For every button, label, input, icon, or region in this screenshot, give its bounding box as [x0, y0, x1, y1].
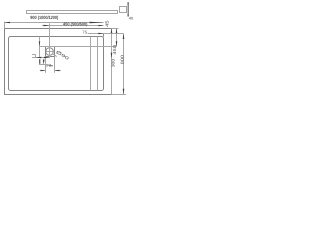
bottom edge ext right [112, 94, 127, 96]
sq width dim right [55, 70, 61, 72]
drain leader [53, 54, 57, 57]
dim B right arrow [99, 25, 104, 26]
svg-text:800: 800 [119, 54, 124, 64]
V1 down arrow [111, 53, 113, 59]
svg-text:450 (500/600): 450 (500/600) [63, 21, 88, 26]
dark vbar (digit 1 mark) [39, 59, 40, 64]
faint line y64.5 [39, 64, 46, 66]
svg-text:900 (1000/1200): 900 (1000/1200) [30, 15, 58, 20]
ext line y46.5 [40, 46, 117, 48]
dim B line [42, 25, 104, 27]
V2 down arrow [116, 41, 118, 46]
V3 dim line [123, 34, 125, 95]
small dim left arrow [36, 57, 42, 59]
inner rounded rect (tray floor) [9, 37, 104, 91]
svg-text:300: 300 [110, 58, 115, 67]
v4 down arrow [39, 41, 40, 46]
dim A left arrow [5, 22, 11, 24]
V2 up arrow [116, 28, 118, 33]
inner right edge stub [103, 34, 105, 37]
dim A right arrow [90, 22, 104, 24]
small dim right arrow [44, 57, 50, 59]
drain h tick [46, 51, 53, 53]
floor line v7 [90, 37, 92, 91]
svg-text:450: 450 [112, 44, 117, 55]
down triangle leader [43, 60, 45, 65]
drain circle [46, 48, 54, 56]
side view raised end [120, 7, 127, 13]
svg-text:75: 75 [82, 30, 88, 35]
sq width right arrow [55, 70, 60, 71]
drain centerline [49, 23, 51, 58]
V1 up arrow [111, 28, 113, 33]
floor line v8 [97, 37, 99, 91]
small dim line y57.5 [32, 57, 50, 59]
V3 down arrow [123, 89, 125, 95]
V3 up arrow [123, 34, 125, 40]
thin dim/ext lines [5, 22, 127, 95]
sq ext left [45, 57, 47, 73]
object lines [27, 7, 127, 14]
V1 dim line [111, 29, 113, 95]
sq width left arrow [41, 70, 46, 71]
top edge ext right [112, 28, 119, 30]
dim B outside arrow at centerline [44, 25, 50, 27]
sq ext right [54, 57, 56, 73]
small dim bracket top [32, 54, 36, 56]
dim A line [5, 22, 104, 24]
V2 dim line [116, 29, 118, 47]
drain square [46, 47, 55, 57]
dim 33 line [88, 33, 124, 35]
outer rect (tray plan view) [5, 29, 112, 95]
sq width dim left [40, 70, 46, 72]
side view bar [27, 11, 118, 14]
small dim ext v [35, 54, 37, 58]
v4 line [39, 37, 41, 58]
side dim dark bar: outside arrows [128, 2, 129, 7]
dash under 90 [49, 64, 53, 67]
svg-text:45: 45 [105, 20, 110, 27]
svg-text:40: 40 [129, 16, 134, 20]
dim33 right arrow [98, 33, 103, 34]
dim A left ext [4, 22, 6, 29]
